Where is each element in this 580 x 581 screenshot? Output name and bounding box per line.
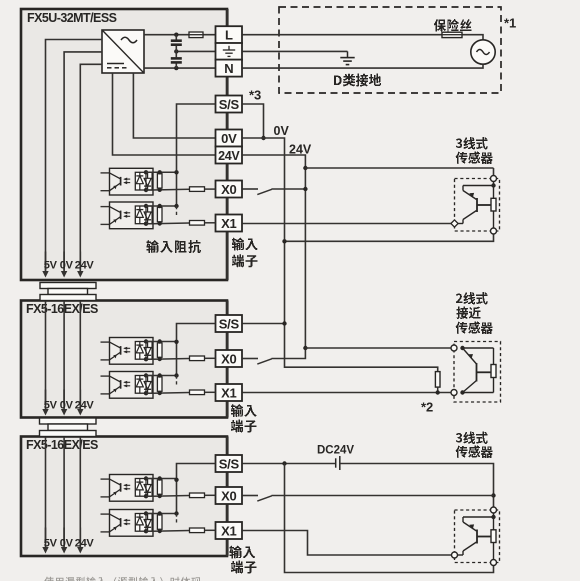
wire PSU 24V output to 24V terminal (113, 73, 216, 155)
label D类接地 (334, 74, 381, 87)
wire sensor1 supply drop (493, 168, 495, 176)
5V 0V 24V arrows U3 (42, 528, 94, 554)
input resistor IN-X1 U2 (190, 390, 216, 395)
svg-text:S/S: S/S (219, 316, 240, 331)
extension bus connector U2-U3 (40, 418, 97, 437)
capacitor C2 ground-to-N (171, 51, 182, 68)
wire L to AC source (243, 35, 484, 40)
3-wire sensor S3 internal resistor (491, 530, 496, 560)
terminal strip line U3 (226, 437, 228, 557)
wire S/S internal bus U1 (174, 104, 215, 218)
junction 24V rail to sensor2 supply (303, 346, 451, 350)
svg-text:DC24V: DC24V (317, 445, 354, 457)
wire 5V loop U1 (46, 40, 103, 271)
wire 0V loop U1 (64, 52, 102, 271)
capacitor C1 line-to-ground (171, 35, 182, 52)
3-wire sensor S3 pin output (452, 552, 458, 558)
terminal strip line U2 (226, 301, 228, 418)
svg-text:FX5U-32MT/ESS: FX5U-32MT/ESS (27, 11, 117, 25)
wire 24V rail (243, 155, 306, 359)
ground D-type earth symbol (340, 51, 354, 64)
label 3线式 S3 (456, 432, 488, 445)
svg-text:0V: 0V (60, 400, 74, 412)
svg-text:5V: 5V (44, 538, 58, 550)
wire 24V loop U3 (79, 437, 81, 541)
wire X0 U1 to 24V rail (272, 187, 308, 191)
optocoupler input circuit IN-X0 U1 (101, 168, 190, 195)
svg-text:0V: 0V (60, 538, 74, 550)
wire 24V loop U1 (80, 64, 102, 270)
3-wire sensor S3 pin 0V (491, 560, 497, 566)
wire battery to sensor3 supply (340, 464, 496, 508)
AC supply dashed enclosure (279, 7, 501, 93)
wire X1 U3 to sensor3 output (243, 531, 452, 556)
svg-text:24V: 24V (218, 149, 240, 163)
terminal X1 U3 (216, 522, 243, 539)
wire 0V loop U2 (63, 301, 65, 404)
bleeder resistor *2 (435, 372, 440, 395)
input resistor IN-X0 U1 (190, 187, 216, 192)
wire sensor3 0V return loop (285, 464, 494, 573)
switch contact X0 U3 (243, 496, 272, 502)
switch contact X0 U2 (243, 359, 272, 365)
2-wire sensor S2 pin - (451, 390, 457, 396)
note *3 (249, 88, 261, 103)
terminal strip line U1 (226, 9, 228, 280)
svg-text:FX5-16EX/ES: FX5-16EX/ES (26, 438, 98, 452)
wire S/S to 0V link *3 (243, 104, 266, 140)
svg-text:*1: *1 (504, 16, 516, 31)
battery DC24V (336, 456, 340, 470)
svg-text:5V: 5V (44, 400, 58, 412)
svg-text:0V: 0V (221, 131, 237, 146)
AC source (471, 40, 495, 64)
wire N to AC source (243, 64, 484, 68)
terminal ground (216, 43, 243, 60)
3-wire sensor S1 dashed enclosure (455, 179, 500, 232)
terminal 0V (216, 130, 243, 147)
PLC unit U1 FX5U-32MT/ESS main box (21, 9, 227, 280)
wire 24V loop U2 (79, 301, 81, 404)
3-wire sensor S1 pin 0V (491, 228, 497, 234)
svg-text:0V: 0V (60, 260, 74, 272)
svg-text:S/S: S/S (219, 97, 240, 112)
power supply converter U1 (102, 30, 144, 73)
svg-text:X0: X0 (221, 488, 236, 503)
terminal X0 U3 (216, 487, 243, 504)
optocoupler input circuit IN-X0 U2 (101, 338, 190, 365)
wire X1 U1 to 3-wire sensor output (243, 223, 452, 225)
label 输入端子 U1 (232, 238, 258, 268)
PLC unit U3 FX5-16EX/ES main box (21, 437, 227, 557)
wire X0 U3 to sensor3 supply node (272, 495, 494, 497)
terminal X1 U1 (216, 215, 243, 232)
svg-text:X1: X1 (221, 385, 236, 400)
label 输入端子 U3 (230, 546, 257, 574)
optocoupler input circuit IN-X0 U3 (101, 475, 190, 502)
2-wire sensor S2 dashed enclosure (454, 342, 501, 403)
terminal 24V (216, 147, 243, 164)
svg-text:X0: X0 (221, 182, 236, 197)
svg-text:X1: X1 (221, 523, 236, 538)
2-wire sensor S2 pin + (451, 345, 457, 351)
input resistor IN-X0 U2 (190, 356, 216, 361)
3-wire sensor S1 internal resistor (491, 198, 496, 228)
caption bottom clipped (44, 577, 200, 581)
svg-text:N: N (224, 61, 233, 76)
2-wire sensor S2 internal transistor (460, 346, 491, 395)
svg-text:0V: 0V (274, 124, 290, 138)
filter capacitor chain node (174, 33, 178, 71)
5V 0V 24V arrows U1 (42, 252, 94, 278)
svg-text:*2: *2 (421, 400, 433, 415)
input resistor IN-X0 U3 (190, 493, 216, 498)
junction S/S U2 to 0V rail (243, 321, 287, 325)
wire PSU 0V output to 0V terminal (133, 73, 215, 138)
terminal X1 U2 (216, 384, 243, 401)
wire 5V loop U2 (45, 301, 47, 404)
wire S/S internal bus U3 (174, 464, 215, 526)
3-wire sensor S3 dashed enclosure (455, 510, 500, 563)
label 传感器 S1 (456, 152, 493, 165)
terminal S/S U3 (216, 455, 243, 472)
label 3线式 S1 (456, 137, 488, 150)
label 2线式 S2 (456, 292, 488, 305)
svg-text:24V: 24V (75, 538, 95, 550)
terminal X0 U2 (216, 350, 243, 367)
optocoupler input circuit IN-X1 U2 (101, 372, 190, 399)
svg-text:FX5-16EX/ES: FX5-16EX/ES (26, 302, 98, 316)
wire X1 U2 to 2-wire sensor (243, 392, 452, 394)
wire S/S U3 to battery (243, 461, 336, 465)
svg-text:5V: 5V (44, 260, 58, 272)
3-wire sensor S1 internal transistor (458, 182, 496, 224)
label 传感器 S3 (456, 446, 493, 459)
fuse internal on L wire (189, 32, 203, 38)
wire 0V loop U3 (63, 437, 65, 541)
switch contact X0 U1 (243, 189, 272, 195)
fuse F1 (442, 32, 462, 37)
wire PSU to L terminal (144, 34, 216, 36)
svg-text:L: L (225, 28, 233, 43)
label 输入阻抗 U1 (147, 240, 202, 253)
svg-text:*3: *3 (249, 88, 261, 103)
terminal X0 U1 (216, 181, 243, 198)
input resistor IN-X1 U3 (190, 528, 216, 533)
svg-text:S/S: S/S (219, 456, 240, 471)
label 24V rail (289, 143, 312, 157)
label DC24V (317, 445, 354, 457)
label 0V rail (274, 124, 290, 138)
junction 24V rail to sensor1 supply (303, 166, 493, 170)
terminal L (216, 26, 243, 43)
label 传感器 S2 (456, 322, 493, 335)
3-wire sensor S3 pin 24V (491, 507, 497, 513)
svg-text:X1: X1 (221, 216, 236, 231)
wire sensor1 0V return (282, 233, 493, 244)
label fuse 保险丝 (434, 19, 472, 32)
3-wire sensor S1 pin output (451, 220, 458, 227)
wire ground terminal to filter node (176, 50, 215, 52)
label 接近 S2 (457, 307, 481, 320)
wire S/S internal bus U2 (174, 324, 215, 388)
3-wire sensor S3 internal transistor (458, 513, 496, 555)
input resistor IN-X1 U1 (190, 221, 216, 226)
wire 5V loop U3 (45, 437, 47, 541)
extension bus connector U1-U2 (40, 283, 96, 301)
PLC unit U2 FX5-16EX/ES main box (21, 301, 227, 418)
wire PSU to N terminal (144, 67, 216, 69)
2-wire sensor S2 internal resistor (463, 348, 497, 393)
optocoupler input circuit IN-X1 U1 (101, 202, 190, 229)
5V 0V 24V arrows U2 (42, 390, 94, 416)
label 输入端子 U2 (231, 404, 257, 433)
svg-text:24V: 24V (75, 260, 95, 272)
3-wire sensor S1 pin 24V (491, 176, 497, 182)
note *2 (421, 400, 433, 415)
svg-text:X0: X0 (221, 351, 236, 366)
note *1 (504, 16, 516, 31)
terminal S/S U2 (216, 315, 243, 332)
terminal S/S (216, 96, 243, 113)
wire 0V rail (243, 138, 438, 372)
terminal N (216, 60, 243, 77)
optocoupler input circuit IN-X1 U3 (101, 510, 190, 537)
wire ground terminal to earth (243, 50, 348, 52)
svg-text:24V: 24V (75, 400, 95, 412)
